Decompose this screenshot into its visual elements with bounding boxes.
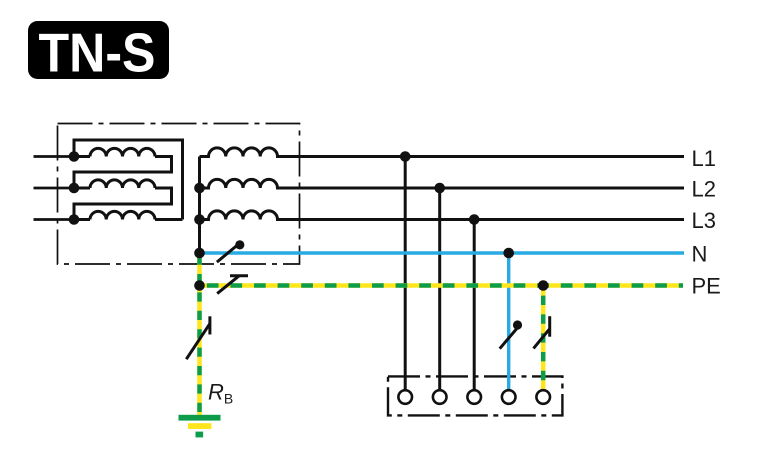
svg-text:TN-S: TN-S	[39, 22, 156, 84]
svg-text:N: N	[692, 242, 708, 267]
svg-text:L3: L3	[692, 208, 716, 233]
svg-text:PE: PE	[692, 274, 721, 299]
svg-text:L2: L2	[692, 177, 716, 202]
svg-text:L1: L1	[692, 146, 716, 171]
